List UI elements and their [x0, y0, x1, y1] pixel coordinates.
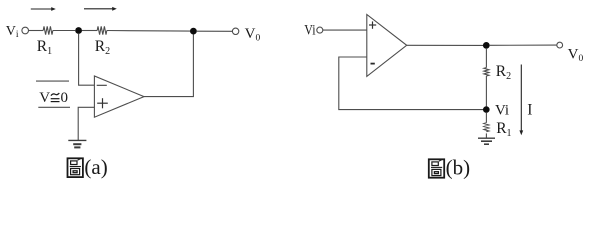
op-amp U2 noninverting pin plus sign	[369, 21, 376, 28]
wire inverting input feedback to node Vi	[339, 57, 483, 110]
svg-text:Vi: Vi	[304, 23, 315, 39]
current arrow I	[519, 65, 523, 136]
node A junction dot	[75, 27, 82, 34]
node Vi junction dot	[483, 106, 490, 113]
resistor R1 (a)	[43, 26, 53, 34]
wire node A down to inverting input	[79, 34, 95, 85]
resistor R1 (b)	[484, 123, 489, 132]
svg-text:(b): (b)	[446, 156, 471, 180]
op-amp U1 triangle	[94, 76, 144, 117]
svg-text:Vi: Vi	[495, 102, 509, 118]
wire R1 to node A	[53, 30, 75, 32]
op-amp U1 noninverting pin plus sign	[97, 98, 108, 108]
label V≅0 virtual ground annotation	[39, 90, 68, 106]
wire op-amp output up to output node	[144, 35, 193, 97]
wire node B down to R2	[485, 49, 487, 68]
output terminal V0 (a)	[232, 28, 238, 34]
wire node A to R2	[82, 30, 97, 32]
wire input terminal to noninverting input	[323, 29, 367, 31]
wire node B to output terminal	[490, 44, 557, 46]
wire input terminal to R1	[29, 30, 44, 32]
current arrow over R2	[84, 7, 117, 11]
ground (b)	[478, 138, 495, 144]
svg-text:V: V	[39, 90, 50, 106]
output node junction dot (a)	[190, 28, 197, 35]
wire noninverting input to ground	[78, 107, 94, 140]
annotation line below V≅0	[38, 106, 70, 108]
op-amp U2 triangle	[367, 15, 407, 77]
input terminal Vi (b)	[317, 27, 323, 33]
wire R1 to ground	[485, 133, 487, 138]
op-amp U1 inverting pin minus sign	[97, 84, 107, 86]
ground (a)	[68, 140, 86, 147]
annotation line above V≅0	[36, 80, 69, 82]
resistor R2 (a)	[97, 26, 107, 34]
op-amp U2 inverting pin minus sign	[371, 63, 375, 65]
resistor R2 (b)	[484, 68, 489, 76]
wire op-amp output to node B	[407, 44, 483, 46]
output terminal V0 (b)	[557, 42, 563, 48]
node B junction dot	[483, 42, 490, 49]
input terminal Vi (a)	[22, 27, 29, 34]
wire output node to output terminal	[197, 30, 233, 32]
wire R2 to output node	[107, 30, 190, 33]
caption 圖(b)	[429, 156, 470, 180]
caption 圖(a)	[68, 155, 108, 179]
wire R2 to node Vi	[485, 76, 487, 106]
svg-text:I: I	[527, 101, 532, 118]
svg-text:0: 0	[61, 90, 69, 106]
current arrow over R1	[31, 7, 56, 11]
svg-text:(a): (a)	[84, 155, 107, 179]
wire node Vi down to R1	[485, 113, 487, 123]
